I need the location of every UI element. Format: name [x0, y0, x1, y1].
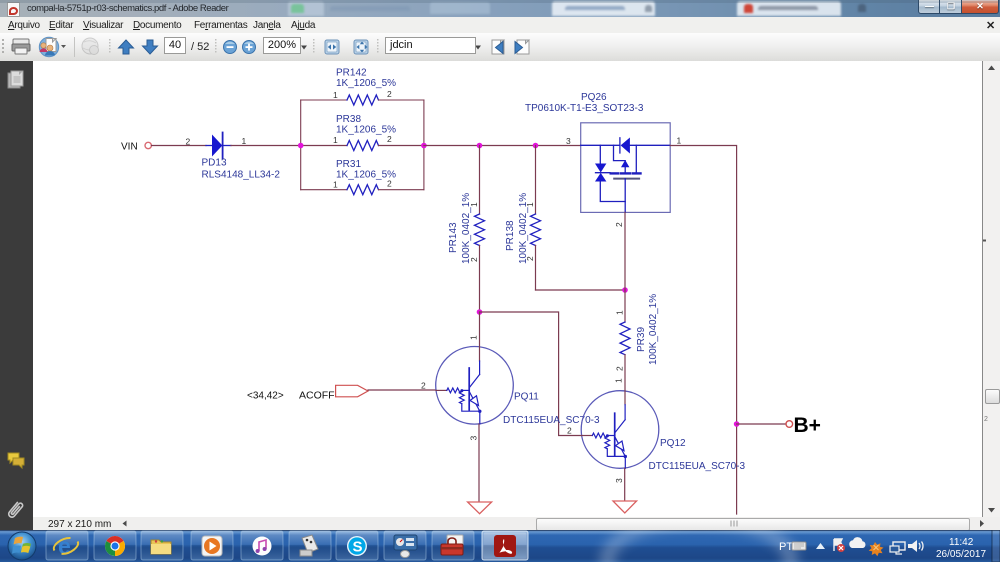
- doc area: [33, 61, 983, 517]
- node at resistor bank left: [298, 143, 304, 149]
- svg-text:1: 1: [242, 136, 247, 146]
- svg-text:RLS4148_LL34-2: RLS4148_LL34-2: [202, 170, 281, 181]
- svg-text:3: 3: [614, 478, 624, 483]
- resistor PR39: [615, 290, 660, 391]
- svg-text:PR39: PR39: [636, 327, 647, 352]
- status bar: [33, 517, 1000, 530]
- wire B+: [737, 423, 786, 425]
- wire PR138 to PQ26 drain node: [536, 289, 626, 291]
- svg-text:1: 1: [469, 335, 479, 340]
- show desktop: [992, 530, 1000, 562]
- svg-text:<34,42>: <34,42>: [247, 391, 284, 402]
- svg-text:3: 3: [566, 136, 571, 146]
- svg-text:PD13: PD13: [202, 158, 227, 169]
- svg-text:DTC115EUA_SC70-3: DTC115EUA_SC70-3: [503, 415, 600, 426]
- svg-text:ACOFF: ACOFF: [299, 390, 335, 402]
- diode PD13: [206, 133, 231, 159]
- fit width icon: [325, 40, 339, 54]
- node B+ terminal: [786, 421, 793, 428]
- resistor PR38: [301, 114, 424, 151]
- node PR138 top: [533, 143, 539, 149]
- Chrome tile: [94, 531, 136, 560]
- resistor PR31: [301, 159, 424, 195]
- svg-text:2: 2: [614, 222, 624, 227]
- wire PQ11 emitter to ground: [478, 424, 480, 502]
- sidebar: [0, 61, 33, 530]
- svg-text:3: 3: [469, 436, 479, 441]
- node PR143 top: [477, 143, 483, 149]
- find next icon: [515, 40, 529, 54]
- Adobe Reader tile (active): [482, 531, 528, 560]
- node PQ11 collector: [477, 309, 483, 315]
- transistor PQ26 internals: [581, 138, 670, 213]
- svg-text:1: 1: [333, 135, 338, 145]
- wire PQ26 pin1 to B+ rail: [670, 146, 736, 515]
- toolbar: [0, 33, 1000, 62]
- svg-text:100K_0402_1%: 100K_0402_1%: [648, 294, 659, 365]
- svg-text:B+: B+: [794, 414, 821, 437]
- attachments panel icon: [7, 501, 23, 518]
- resistor PR143: [448, 146, 485, 313]
- svg-text:1K_1206_5%: 1K_1206_5%: [336, 170, 396, 181]
- svg-text:DTC115EUA_SC70-3: DTC115EUA_SC70-3: [649, 461, 746, 472]
- svg-text:PQ11: PQ11: [514, 392, 539, 403]
- svg-text:100K_0402_1%: 100K_0402_1%: [518, 193, 529, 264]
- find previous icon: [492, 40, 504, 54]
- ground PQ12: [613, 501, 637, 513]
- wire PQ11 collector to PQ12 base: [480, 312, 582, 436]
- net ACOFF off-page connector: [336, 385, 368, 397]
- svg-text:PR38: PR38: [336, 114, 361, 125]
- comments panel icon: [8, 453, 24, 468]
- wire PQ11 collector lead: [479, 312, 481, 361]
- ground PQ11: [468, 502, 492, 514]
- dotted separators: [109, 39, 379, 53]
- control tile: [384, 531, 426, 560]
- node VIN terminal: [121, 142, 151, 153]
- wire resistor bank left rail: [300, 100, 302, 190]
- svg-text:2: 2: [186, 137, 191, 147]
- svg-text:1: 1: [614, 378, 624, 383]
- WMP tile: [191, 531, 233, 560]
- svg-text:1: 1: [333, 90, 338, 100]
- svg-text:2: 2: [567, 426, 572, 436]
- wire resistor bank to PQ26: [424, 145, 581, 147]
- printer icon: [12, 39, 30, 54]
- start orb: [8, 532, 36, 560]
- svg-text:TP0610K-T1-E3_SOT23-3: TP0610K-T1-E3_SOT23-3: [525, 103, 644, 114]
- wire PQ12 emitter to ground: [624, 468, 626, 501]
- node B+ tap: [734, 421, 740, 427]
- vertical scrollbar: [983, 61, 1000, 517]
- transistor PQ11 internals: [436, 361, 481, 424]
- iTunes tile: [241, 531, 283, 560]
- svg-text:VIN: VIN: [121, 142, 138, 153]
- resistor PR138: [505, 146, 541, 291]
- transistor PQ26 body box: [581, 123, 671, 213]
- search dropdown arrow: [475, 46, 481, 50]
- zoom in button: [243, 41, 256, 54]
- wire PQ26 pin2 to drain node: [624, 212, 626, 290]
- grip: [2, 39, 4, 53]
- transistor PQ12 internals: [582, 405, 628, 469]
- svg-text:PR138: PR138: [505, 220, 516, 251]
- node PQ26 drain: [622, 287, 628, 293]
- IE tile: [46, 531, 88, 560]
- taskbar: [0, 530, 1000, 562]
- svg-text:1K_1206_5%: 1K_1206_5%: [336, 78, 396, 89]
- toolbox tile: [432, 531, 474, 560]
- svg-text:2: 2: [387, 134, 392, 144]
- wire VIN to diode PD13: [152, 145, 207, 147]
- svg-text:2: 2: [387, 89, 392, 99]
- fit page icon: [354, 40, 368, 54]
- Explorer tile: [141, 531, 183, 560]
- title bar: [0, 0, 1000, 17]
- svg-text:1K_1206_5%: 1K_1206_5%: [336, 125, 396, 136]
- prev page arrow: [119, 40, 134, 54]
- menu bar: [0, 17, 1000, 34]
- svg-text:PR143: PR143: [448, 222, 459, 253]
- wire resistor bank right rail: [423, 100, 425, 190]
- svg-text:PQ12: PQ12: [660, 438, 686, 449]
- next page arrow: [143, 40, 158, 54]
- svg-text:PR142: PR142: [336, 68, 367, 79]
- svg-text:1: 1: [677, 136, 682, 146]
- node at resistor bank right: [421, 143, 427, 149]
- pages panel icon: [8, 71, 23, 88]
- card reader tile: [289, 531, 331, 560]
- zoom out button: [224, 41, 237, 54]
- wire ACOFF to PQ11 base: [368, 389, 436, 391]
- svg-text:1: 1: [615, 310, 625, 315]
- svg-text:100K_0402_1%: 100K_0402_1%: [461, 193, 472, 264]
- wire diode to resistor bank: [231, 145, 301, 147]
- svg-text:PR31: PR31: [336, 159, 361, 170]
- svg-text:1: 1: [333, 180, 338, 190]
- wire PQ12 collector lead: [624, 391, 626, 405]
- svg-text:2: 2: [615, 366, 625, 371]
- Skype tile: [336, 531, 378, 560]
- share person icon: [39, 37, 66, 56]
- resistor PR142: [301, 68, 424, 106]
- svg-text:PQ26: PQ26: [581, 92, 607, 103]
- svg-text:2: 2: [421, 381, 426, 391]
- transistor PQ11 body circle: [436, 347, 514, 425]
- disabled globe icon: [82, 38, 99, 55]
- tray: [779, 537, 986, 560]
- zoom dropdown arrow: [301, 46, 307, 50]
- transistor PQ12 body circle: [581, 391, 659, 469]
